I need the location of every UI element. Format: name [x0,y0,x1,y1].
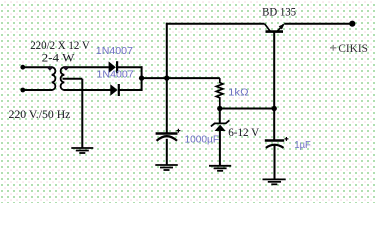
wire D1 cathode to node [117,66,142,68]
wire primary bottom lead [23,89,53,91]
svg-text:1N4007: 1N4007 [97,70,135,81]
wire base lead down [273,31,275,139]
polarity dot primary [47,66,52,71]
wire D2 cathode to node [119,89,143,91]
node junction C1 tap [164,75,169,80]
svg-text:1N4007: 1N4007 [96,46,134,57]
diode D1 1N4007 [109,61,118,73]
wire zener node rail [220,108,274,110]
ground zener [209,166,231,171]
svg-text:1000µF: 1000µF [185,135,220,146]
zener diode ZD1 [211,120,230,131]
wire emitter output [284,23,352,25]
svg-text:220 V./50 Hz: 220 V./50 Hz [9,109,71,121]
ground C2 [263,179,286,184]
wire C1 bottom lead [166,139,168,165]
node junction diode output [139,75,144,80]
output star symbol [330,45,336,51]
terminal dot primary bottom [20,88,25,93]
polarity dot secondary [64,66,69,71]
wire center tap vertical to ground [81,79,83,148]
node junction zener left [217,106,222,111]
wire C2 bottom lead [274,145,276,180]
node junction base [272,106,277,111]
wire zener to ground [219,131,221,166]
wire rectified rail [142,77,220,79]
transistor Q1 BD135 [265,24,285,32]
svg-text:BD 135: BD 135 [262,6,296,18]
svg-text:1kΩ: 1kΩ [228,87,249,98]
wire center tap horizontal [63,78,83,80]
resistor R1 1kohm [216,78,223,108]
ground C1 [155,165,178,170]
svg-text:220/2 X 12 V: 220/2 X 12 V [30,40,90,52]
wire secondary bottom lead to D2 [64,89,111,91]
svg-text:CIKIS: CIKIS [338,42,368,55]
transformer T1 primary winding [52,67,56,90]
svg-text:1µF: 1µF [294,140,310,151]
wire secondary top lead to D1 [64,66,109,68]
svg-text:2-4 W: 2-4 W [42,53,75,65]
diode D2 1N4007 [110,84,119,96]
capacitor C1 1000uF [156,129,181,141]
wire primary top lead [23,66,53,68]
capacitor C2 1uF [265,137,289,148]
wire zener top lead [219,109,221,124]
terminal dot output [349,21,355,27]
wire vertical joining diode cathodes [141,66,143,91]
svg-text:6-12 V: 6-12 V [228,127,259,139]
terminal dot primary top [20,65,25,70]
wire riser to collector rail and down to C1 [166,23,168,133]
transformer T1 secondary winding [61,67,65,90]
ground center tap [71,148,93,153]
wire top collector rail [166,23,265,25]
